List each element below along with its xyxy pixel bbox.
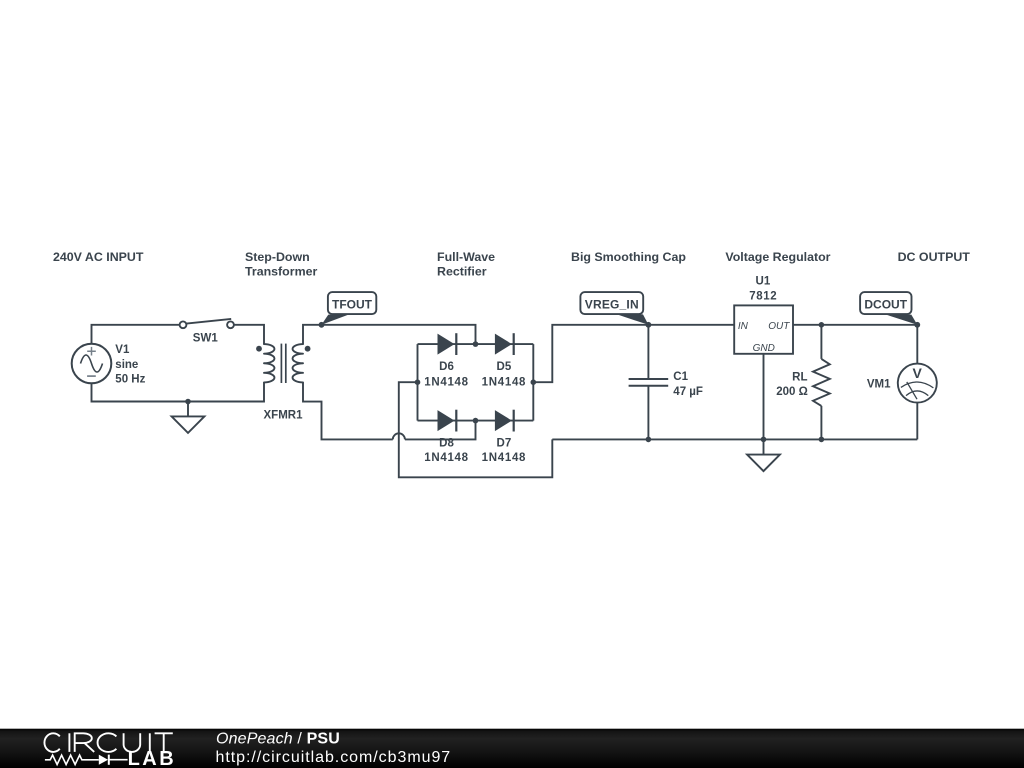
svg-text:VM1: VM1 <box>867 379 891 391</box>
wire rectifier right column <box>532 344 534 421</box>
node TFOUT junction <box>319 322 325 328</box>
svg-text:http://circuitlab.com/cb3mu97: http://circuitlab.com/cb3mu97 <box>216 749 452 766</box>
voltage source V1 <box>72 344 112 384</box>
svg-text:D6: D6 <box>439 361 454 373</box>
node RL top junction <box>819 322 825 328</box>
node tag TFOUT <box>322 292 377 325</box>
wire primary bottom <box>92 382 265 401</box>
wire U1 OUT rail <box>793 324 917 326</box>
svg-text:Transformer: Transformer <box>245 265 317 279</box>
capacitor C1 <box>629 325 669 440</box>
svg-text:Big Smoothing Cap: Big Smoothing Cap <box>571 250 686 264</box>
wire rectifier top row <box>418 343 534 345</box>
svg-text:1N4148: 1N4148 <box>424 452 468 464</box>
node left bridge junction <box>415 379 421 385</box>
svg-text:47 µF: 47 µF <box>673 386 703 398</box>
wire SW1 to transformer <box>234 325 264 344</box>
svg-text:OnePeach / PSU: OnePeach / PSU <box>216 731 340 748</box>
svg-text:Full-Wave: Full-Wave <box>437 250 495 264</box>
node top bridge junction <box>473 341 479 347</box>
svg-text:7812: 7812 <box>749 291 777 303</box>
svg-text:Step-Down: Step-Down <box>245 250 310 264</box>
svg-text:1N4148: 1N4148 <box>424 376 468 388</box>
wire rectifier left column <box>417 344 419 421</box>
wire positive to VREG_IN rail <box>533 325 734 382</box>
svg-text:SW1: SW1 <box>193 332 219 344</box>
wire secondary bottom <box>303 382 393 439</box>
svg-text:LAB: LAB <box>128 748 177 768</box>
svg-text:V1: V1 <box>115 344 130 356</box>
switch SW1 <box>180 319 234 328</box>
svg-text:U1: U1 <box>756 276 771 288</box>
wire primary top left (V1 to SW1) <box>92 325 180 344</box>
node tag DCOUT <box>860 292 917 325</box>
svg-text:DC OUTPUT: DC OUTPUT <box>898 250 971 264</box>
svg-text:sine: sine <box>115 359 138 371</box>
svg-text:1N4148: 1N4148 <box>482 376 526 388</box>
node C1 bottom junction <box>646 437 652 443</box>
svg-text:D8: D8 <box>439 437 454 449</box>
svg-text:OUT: OUT <box>768 321 790 332</box>
svg-text:GND: GND <box>753 343 775 354</box>
wire secondary top to rectifier <box>303 325 476 344</box>
node right bridge junction <box>531 379 537 385</box>
node bottom bridge junction <box>473 418 479 424</box>
node tag VREG_IN <box>580 292 648 325</box>
svg-text:Rectifier: Rectifier <box>437 265 487 279</box>
svg-text:50 Hz: 50 Hz <box>115 374 145 386</box>
svg-text:1N4148: 1N4148 <box>482 452 526 464</box>
svg-text:D7: D7 <box>497 437 512 449</box>
wire hop over negative rail <box>393 433 405 439</box>
wire negative detour <box>399 382 553 477</box>
diode D6 <box>438 333 457 355</box>
logo CIRCUIT lettering <box>44 733 172 752</box>
ground (primary) <box>172 402 205 433</box>
node junction on primary bottom <box>185 399 191 405</box>
diode D7 <box>495 410 514 432</box>
wire rectifier bottom row <box>418 420 534 422</box>
wire hop to bottom bridge node <box>405 421 476 440</box>
FOOTER <box>0 729 1024 768</box>
diode D5 <box>495 333 514 355</box>
svg-text:C1: C1 <box>673 371 688 383</box>
svg-text:DCOUT: DCOUT <box>864 297 907 311</box>
svg-text:240V AC INPUT: 240V AC INPUT <box>53 250 144 264</box>
svg-text:V: V <box>913 365 923 381</box>
svg-text:TFOUT: TFOUT <box>332 297 373 311</box>
logo resistor-diode graphic <box>45 755 128 765</box>
transformer XFMR1 <box>256 344 310 383</box>
svg-text:XFMR1: XFMR1 <box>264 409 304 421</box>
regulator U1 7812 box <box>734 305 793 353</box>
wire U1 GND down <box>763 354 765 440</box>
svg-text:IN: IN <box>738 321 749 332</box>
svg-text:D5: D5 <box>497 361 512 373</box>
voltmeter VM1 <box>898 325 937 440</box>
wire dc bottom rail <box>552 438 917 440</box>
svg-text:VREG_IN: VREG_IN <box>585 297 639 311</box>
svg-text:200 Ω: 200 Ω <box>776 386 808 398</box>
resistor RL <box>813 325 830 440</box>
node DCOUT junction <box>914 322 920 328</box>
diode D8 <box>438 410 457 432</box>
node U1 GND junction <box>761 437 767 443</box>
node VREG_IN junction <box>646 322 652 328</box>
node RL bottom junction <box>819 437 825 443</box>
ground (dc rail) <box>747 439 780 471</box>
svg-text:Voltage Regulator: Voltage Regulator <box>725 250 830 264</box>
svg-text:RL: RL <box>792 371 807 383</box>
